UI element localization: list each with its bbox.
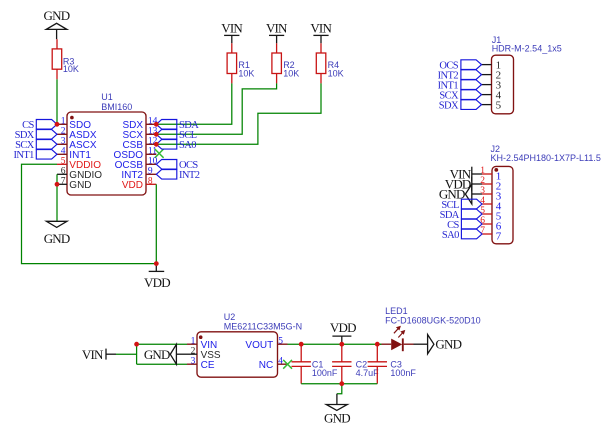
svg-text:5: 5 <box>278 336 283 346</box>
svg-text:U1: U1 <box>101 92 113 102</box>
wire R4 to SA0 node <box>156 83 321 144</box>
J2 pin 3 <box>480 186 502 203</box>
net label INT2 <box>156 170 199 182</box>
U1 pin 11 OSDO <box>114 146 158 161</box>
svg-text:10K: 10K <box>328 68 344 78</box>
net label SCX at J1 pin4 <box>439 90 481 102</box>
wire U1 VDD pin8 down <box>155 184 157 263</box>
label R4 10K <box>328 60 344 78</box>
J1 pin 5 <box>482 100 502 112</box>
net label SCL at J2 pin4 <box>441 199 482 211</box>
J2 pin 4 <box>480 196 502 213</box>
svg-text:7: 7 <box>496 231 502 243</box>
svg-text:5: 5 <box>496 100 502 112</box>
svg-text:4: 4 <box>278 356 283 366</box>
svg-text:3: 3 <box>191 356 196 366</box>
svg-text:5: 5 <box>61 156 66 166</box>
net label SCX <box>15 140 57 152</box>
svg-text:VOUT: VOUT <box>245 340 273 351</box>
junction node C3/LED <box>375 342 380 347</box>
junction node C2/VDD <box>339 342 344 347</box>
power flag VIN over R4 <box>310 20 332 43</box>
svg-text:6: 6 <box>61 166 66 176</box>
label J1 HDR-M-2.54_1x5 <box>492 35 562 54</box>
svg-text:VIN: VIN <box>266 20 288 35</box>
svg-text:10K: 10K <box>238 68 254 78</box>
J1 pin 2 <box>482 70 502 82</box>
net label CS at J2 pin6 <box>447 219 482 231</box>
resistor R4 <box>316 43 326 83</box>
IC U1 BMI160 body <box>67 112 146 195</box>
svg-text:HDR-M-2.54_1x5: HDR-M-2.54_1x5 <box>492 43 562 53</box>
label C2 4.7uF <box>356 360 380 378</box>
capacitor C3 <box>368 344 387 384</box>
U2 pin 3 CE <box>187 356 215 371</box>
net label INT1 at J1 pin3 <box>438 80 482 92</box>
IC U2 ME6211 body <box>197 332 278 377</box>
pin-1 indicator dot U2 <box>199 335 203 339</box>
pin-1 indicator dot J2 <box>494 168 498 172</box>
power flag VDD under U1 <box>144 264 170 291</box>
net label INT1 <box>13 150 57 162</box>
svg-text:KH-2.54PH180-1X7P-L11.5: KH-2.54PH180-1X7P-L11.5 <box>491 153 601 163</box>
wire U1 VDDIO to VDD node <box>22 164 157 263</box>
net label INT2 at J1 pin2 <box>438 70 482 82</box>
net label SDX at J1 pin5 <box>439 100 482 112</box>
svg-text:10K: 10K <box>63 64 79 74</box>
svg-text:2: 2 <box>191 346 196 356</box>
junction node GND pin7 <box>55 182 60 187</box>
svg-text:GND: GND <box>435 336 461 351</box>
svg-text:100nF: 100nF <box>312 368 338 378</box>
power flag VIN over R1 <box>221 20 243 43</box>
svg-text:8: 8 <box>148 176 153 186</box>
svg-text:3: 3 <box>61 136 66 146</box>
svg-text:NC: NC <box>259 360 273 371</box>
svg-text:GND: GND <box>324 411 350 426</box>
svg-text:FC-D1608UGK-520D10: FC-D1608UGK-520D10 <box>385 316 481 326</box>
svg-text:100nF: 100nF <box>390 368 416 378</box>
U1 pin 5 VDDIO <box>57 156 101 171</box>
label C1 100nF <box>312 360 338 378</box>
U1 pin 8 VDD <box>122 176 156 191</box>
J2 pin 7 <box>480 226 502 243</box>
resistor R3 <box>52 39 62 79</box>
no-connect X on U1 pin 11 <box>155 149 164 158</box>
svg-text:INT1: INT1 <box>13 150 34 161</box>
wire VIN to U2 <box>116 344 187 364</box>
U2 pin 5 VOUT <box>245 336 287 351</box>
U1 pin 4 INT1 <box>57 146 91 161</box>
wire VOUT rail <box>288 343 382 345</box>
junction node SDA <box>154 122 159 127</box>
U1 pin 13 SCX <box>122 126 157 141</box>
svg-text:ME6211C33M5G-N: ME6211C33M5G-N <box>224 321 302 331</box>
LED LED1 <box>377 338 413 351</box>
svg-text:1: 1 <box>61 116 66 126</box>
svg-text:2: 2 <box>61 126 66 136</box>
U1 pin 6 GNDIO <box>57 166 102 181</box>
svg-text:SA0: SA0 <box>442 230 459 241</box>
power flag VDD bottom <box>330 320 356 344</box>
svg-text:GND: GND <box>144 347 170 362</box>
junction node GND rail <box>339 381 344 386</box>
junction node SCL <box>154 132 159 137</box>
net label SDA <box>156 120 199 132</box>
J1 pin 4 <box>482 90 502 102</box>
wire capacitor ground rail <box>301 383 377 385</box>
wire R2 to SCL node <box>156 83 276 134</box>
connector J2 body <box>492 166 513 243</box>
net label SA0 at J2 pin7 <box>442 229 482 241</box>
label U1 BMI160 <box>101 92 132 112</box>
junction node R3/SDO <box>55 122 60 127</box>
svg-text:VDD: VDD <box>330 320 356 335</box>
svg-text:4.7uF: 4.7uF <box>356 368 380 378</box>
wire R1 to SDA node <box>156 83 232 124</box>
U2 pin 2 VSS <box>187 346 221 361</box>
power flag GND at U2 VSS <box>144 344 187 364</box>
LED arrows <box>394 326 405 338</box>
U1 pin 1 SDO <box>57 116 91 131</box>
svg-text:GND: GND <box>44 8 70 23</box>
wire pin7 to GND flag <box>56 184 58 221</box>
svg-text:9: 9 <box>148 166 153 176</box>
U1 pin 12 CSB <box>122 136 157 151</box>
junction node VDD <box>154 261 159 266</box>
junction node C1/VOUT <box>299 342 304 347</box>
wire rail to GND flag <box>337 384 342 394</box>
power flag GND right of LED <box>428 335 462 354</box>
svg-text:BMI160: BMI160 <box>101 102 132 112</box>
J2 pin 6 <box>480 216 502 233</box>
J2 pin 5 <box>480 206 502 223</box>
U2 pin 1 VIN <box>187 336 217 351</box>
label C3 100nF <box>390 360 416 378</box>
resistor R2 <box>272 43 282 83</box>
svg-text:GND: GND <box>44 231 70 246</box>
power flag GND top-left <box>44 8 70 39</box>
svg-text:LED1: LED1 <box>385 306 408 316</box>
net label SA0 <box>156 140 196 152</box>
label R1 10K <box>238 60 254 78</box>
svg-text:VIN: VIN <box>310 20 332 35</box>
J2 pin 1 <box>480 166 501 183</box>
net label OCS at J1 pin1 <box>439 60 481 72</box>
svg-text:GND: GND <box>69 180 91 191</box>
U2 pin 4 NC <box>259 356 288 371</box>
svg-text:CE: CE <box>201 360 215 371</box>
capacitor C1 <box>292 344 311 384</box>
J1 pin 1 <box>482 60 502 72</box>
U1 pin 10 OCSB <box>115 156 158 171</box>
connector J1 body <box>492 55 514 114</box>
U1 pin 7 GND <box>57 176 92 191</box>
svg-text:11: 11 <box>148 146 157 156</box>
U1 pin 2 ASDX <box>57 126 97 141</box>
net label SDA at J2 pin5 <box>440 209 482 221</box>
label R2 10K <box>283 60 299 78</box>
net label SCL <box>156 130 196 142</box>
label R3 10K <box>63 56 79 74</box>
resistor R1 <box>227 43 237 83</box>
U1 pin 14 SDX <box>122 116 157 131</box>
svg-text:VDD: VDD <box>122 180 143 191</box>
power flag GND under U1 <box>44 221 70 246</box>
net label SDX <box>15 130 57 142</box>
power flag VIN at J2 pin1 <box>450 166 482 181</box>
power flag VIN bottom-left <box>82 347 116 362</box>
label U2 ME6211C33M5G-N <box>224 312 302 331</box>
wire LED cathode to GND <box>414 343 428 345</box>
svg-text:10K: 10K <box>283 68 299 78</box>
net label CS <box>22 120 57 132</box>
U1 pin 9 INT2 <box>121 166 156 181</box>
wire R3 to U1 pin1 SDO <box>56 79 58 124</box>
svg-text:4: 4 <box>61 146 66 156</box>
power flag GND below capacitors <box>324 394 350 426</box>
svg-text:VIN: VIN <box>82 347 104 362</box>
J1 pin 3 <box>482 80 502 92</box>
net label OCS <box>156 160 198 172</box>
junction node VIN/U2 <box>134 342 139 347</box>
label LED1 FC-D1608UGK-520D10 <box>385 306 481 326</box>
label J2 KH-2.54PH180-1X7P-L11.5 <box>491 144 601 163</box>
junction node SA0 <box>154 142 159 147</box>
svg-text:SDX: SDX <box>439 100 459 111</box>
svg-text:SA0: SA0 <box>179 140 196 151</box>
power flag VIN over R2 <box>266 20 288 43</box>
U1 pin 3 ASCX <box>57 136 97 151</box>
no-connect X on U2 pin 4 <box>283 360 292 369</box>
wire U1 GNDIO to pin7 <box>56 174 58 184</box>
pin-1 indicator dot U1 <box>70 116 74 120</box>
power flag VDD at J2 pin2 <box>445 176 482 191</box>
svg-text:1: 1 <box>191 336 196 346</box>
svg-text:7: 7 <box>61 176 66 186</box>
power flag GND at J2 pin3 <box>439 184 482 204</box>
svg-text:INT2: INT2 <box>179 170 200 181</box>
svg-text:VIN: VIN <box>221 20 243 35</box>
J2 pin 2 <box>480 176 501 193</box>
svg-text:VDD: VDD <box>144 275 170 290</box>
capacitor C2 <box>332 344 351 384</box>
